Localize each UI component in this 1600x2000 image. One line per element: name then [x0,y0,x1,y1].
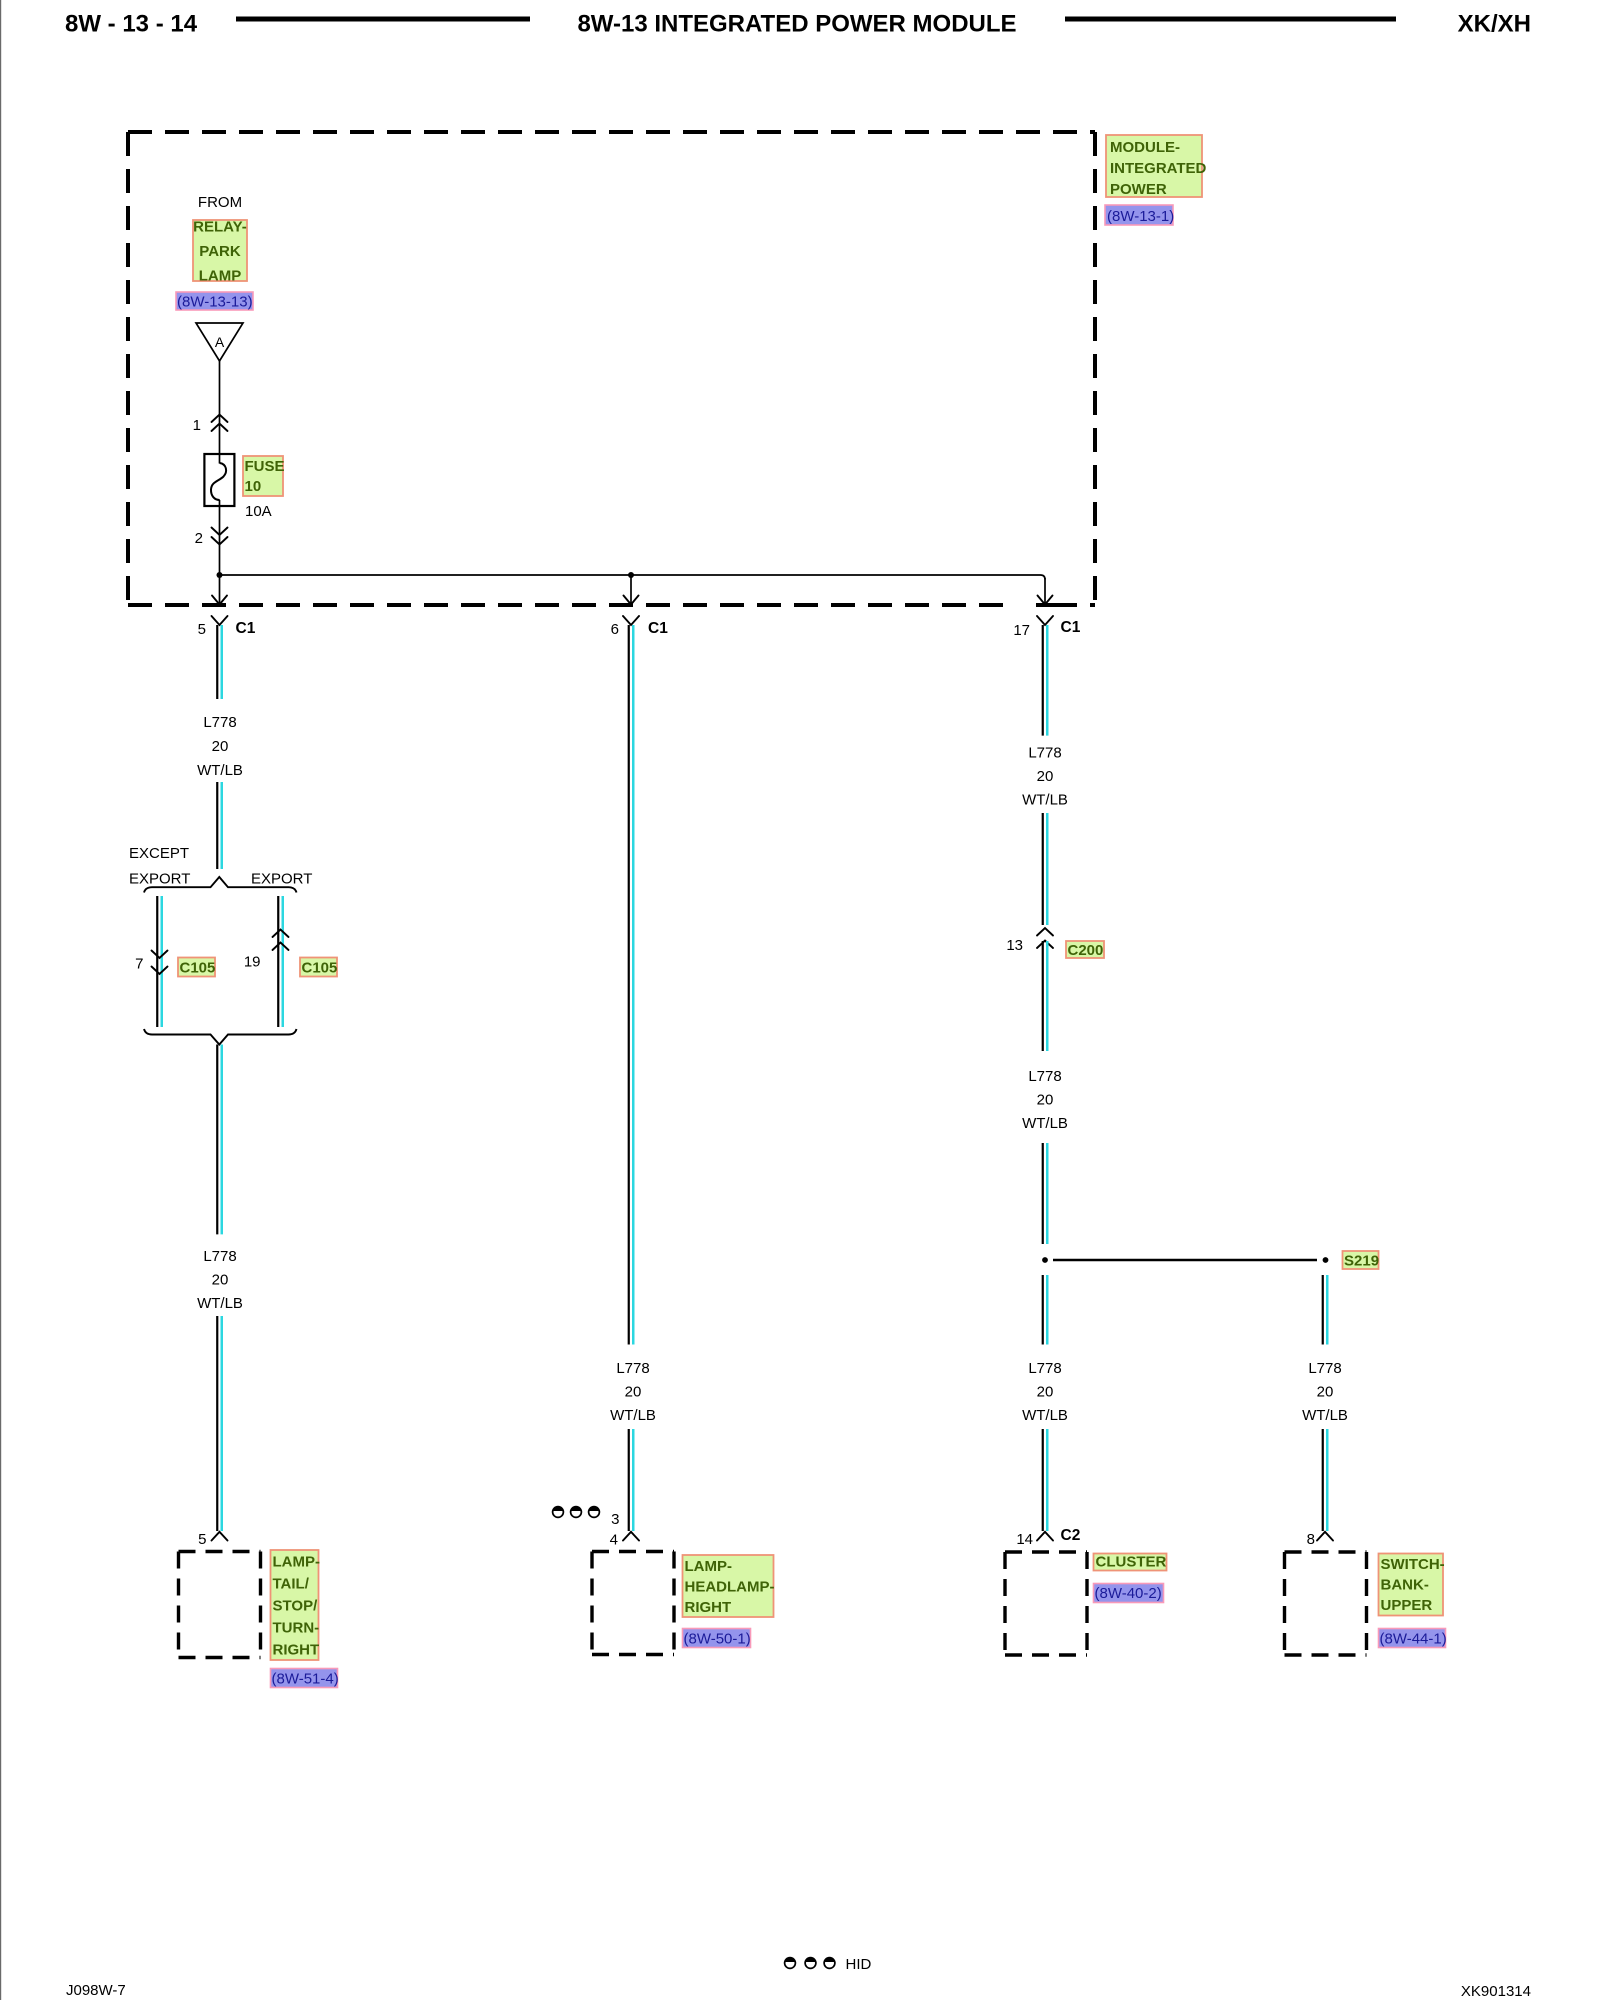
component: SWITCH-BANK-UPPER dashed box [1285,1552,1367,1655]
svg-text:14: 14 [1016,1531,1033,1548]
svg-text:RIGHT: RIGHT [273,1642,320,1659]
pin 2 connector chevrons (down) [212,528,228,545]
wire W-A6: down to lamp connector [216,1316,218,1531]
svg-text:EXCEPT: EXCEPT [129,845,189,862]
svg-text:C1: C1 [236,620,256,637]
svg-text:WT/LB: WT/LB [1022,1115,1068,1132]
connector C200 pin 13 chevrons (up) [1037,928,1053,948]
svg-text:C105: C105 [180,960,216,977]
link: (8W-44-1) [1379,1629,1447,1648]
label: C200 (green) [1066,941,1104,959]
header rule right [1065,17,1396,22]
wire: splice tie line [1053,1259,1317,1261]
svg-text:LAMP-: LAMP- [273,1554,321,1571]
connector C1 pin 6 (female half below IPM) [623,616,639,625]
dash patch at pin 17 [1014,603,1036,608]
module U1: INTEGRATED POWER MODULE dashed outline [128,132,1095,605]
svg-text:SWITCH-: SWITCH- [1381,1556,1445,1573]
label: MODULE-INTEGRATED POWER (green) [1106,135,1207,198]
label: CLUSTER (green) [1094,1554,1167,1571]
svg-text:4: 4 [610,1532,618,1549]
header rule left [236,17,530,22]
svg-text:RELAY-: RELAY- [193,219,247,236]
node: bus junction dot middle drop [628,572,634,578]
svg-text:5: 5 [198,621,206,638]
svg-text:(8W-13-1): (8W-13-1) [1107,208,1174,225]
svg-text:(8W-13-13): (8W-13-13) [177,294,253,311]
svg-text:WT/LB: WT/LB [197,1295,243,1312]
svg-text:WT/LB: WT/LB [610,1407,656,1424]
svg-text:10A: 10A [245,503,272,520]
svg-text:2: 2 [195,530,203,547]
component: LAMP-HEADLAMP-RIGHT dashed box [592,1552,674,1655]
svg-text:L778: L778 [203,1248,236,1265]
svg-text:INTEGRATED: INTEGRATED [1110,160,1207,177]
connector C105 pin 7 chevrons (down) [152,951,168,975]
svg-text:20: 20 [625,1384,642,1401]
wire W-B2: down to lamp connector [628,1429,630,1531]
component: LAMP-TAIL/STOP/TURN-RIGHT dashed box [179,1552,261,1658]
wire W-D2: down to switch bank connector [1322,1429,1324,1531]
svg-text:20: 20 [212,1272,229,1289]
wire W-A1: C1 pin5 down (WT/LB) [216,625,218,699]
svg-text:20: 20 [1037,1384,1054,1401]
svg-text:6: 6 [611,621,619,638]
svg-text:FROM: FROM [198,194,242,211]
svg-text:C1: C1 [1061,619,1081,636]
svg-text:8: 8 [1307,1531,1315,1548]
svg-text:POWER: POWER [1110,181,1167,198]
svg-text:8W - 13 - 14: 8W - 13 - 14 [65,11,198,38]
label: C105 (right) [300,958,337,977]
arrowhead at C1 pin 6 [624,596,639,605]
svg-text:WT/LB: WT/LB [1022,1407,1068,1424]
link: (8W-51-4) [271,1669,339,1688]
page edge artifact line [0,0,2,2000]
wire: triangle A to fuse (inside IPM) [219,361,221,464]
component: CLUSTER dashed box [1005,1552,1087,1655]
svg-text:L778: L778 [616,1360,649,1377]
wire W-D1: splice S219 down to switch bank (WT/LB) [1322,1275,1324,1345]
connector C105 pin 19 chevrons (up) [273,930,289,951]
svg-text:L778: L778 [1028,745,1061,762]
label: C105 (left) [178,958,215,977]
arrowhead at C1 pin 17 [1038,596,1053,605]
svg-text:C1: C1 [648,620,668,637]
node: splice S219 right dot [1323,1257,1329,1263]
svg-text:TURN-: TURN- [273,1620,320,1637]
wire W-B1: C1 pin6 down to headlamp (WT/LB) [628,625,630,1345]
svg-text:TAIL/: TAIL/ [273,1576,310,1593]
connector C2 pin 14 at cluster (chevron up) [1037,1532,1053,1541]
svg-text:PARK: PARK [199,243,241,260]
svg-text:WT/LB: WT/LB [1302,1407,1348,1424]
svg-text:LAMP: LAMP [199,268,242,285]
label: LAMP-HEADLAMP-RIGHT (green) [683,1555,775,1617]
svg-text:L778: L778 [1028,1360,1061,1377]
svg-text:XK/XH: XK/XH [1458,11,1531,38]
label: S219 (green) [1343,1251,1380,1270]
svg-text:7: 7 [135,956,143,973]
pin 1 connector chevrons (up) [212,415,228,432]
svg-text:HID: HID [846,1956,872,1973]
wire W-A5: merged wire down [216,1045,218,1235]
wire W-C5: splice down to cluster [1042,1275,1044,1345]
node A: off-page triangle connector [196,323,243,361]
split brace (top) [144,877,297,893]
svg-text:10: 10 [245,478,262,495]
svg-text:MODULE-: MODULE- [1110,139,1180,156]
svg-text:(8W-44-1): (8W-44-1) [1380,1631,1447,1648]
arrowhead at C1 pin 5 [212,596,227,605]
svg-text:EXPORT: EXPORT [251,871,312,888]
HID option marker circles [553,1507,600,1518]
link: (8W-50-1) [683,1629,751,1648]
svg-text:(8W-40-2): (8W-40-2) [1095,1585,1162,1602]
svg-text:BANK-: BANK- [1381,1577,1429,1594]
svg-text:STOP/: STOP/ [273,1598,319,1615]
svg-text:RIGHT: RIGHT [685,1599,732,1616]
wire W-C1: C1 pin17 down (WT/LB) [1042,625,1044,736]
svg-text:20: 20 [1317,1384,1334,1401]
svg-text:(8W-51-4): (8W-51-4) [272,1671,339,1688]
node: bus junction dot at fuse output [217,572,223,578]
wire: bus drop to C1 pin 17 [1044,578,1046,604]
svg-text:L778: L778 [1308,1360,1341,1377]
wire W-A2: down to export split [216,782,218,869]
svg-text:WT/LB: WT/LB [197,762,243,779]
svg-text:20: 20 [1037,1092,1054,1109]
svg-text:1: 1 [193,417,201,434]
svg-text:C2: C2 [1061,1527,1081,1544]
svg-text:A: A [215,334,225,350]
svg-text:UPPER: UPPER [1381,1597,1433,1614]
label: FUSE 10 (green) [243,456,285,496]
svg-text:J098W-7: J098W-7 [66,1982,126,1999]
svg-text:L778: L778 [203,714,236,731]
connector pin 5 at lamp (chevron up) [212,1532,228,1541]
connector pin 8 at switch bank (chevron up) [1317,1532,1333,1541]
wire W-C4: down to splice S219 [1042,1143,1044,1244]
svg-text:19: 19 [244,954,261,971]
svg-text:20: 20 [212,738,229,755]
svg-text:LAMP-: LAMP- [685,1558,733,1575]
fuse F10 body [204,454,234,506]
connector pin 4 at headlamp (chevron up) [623,1532,639,1541]
wire W-A3: except-export branch (left) [156,896,158,1027]
link: (8W-40-2) [1094,1584,1164,1603]
merge brace (bottom) [144,1029,297,1045]
label: SWITCH-BANK-UPPER (green) [1379,1554,1445,1616]
svg-text:CLUSTER: CLUSTER [1096,1554,1167,1571]
wire W-A4: export branch (right) [277,896,279,1027]
wire: fuse to bus node [219,500,221,604]
connector C1 pin 5 (female half below IPM) [212,616,228,625]
svg-text:13: 13 [1006,937,1023,954]
svg-text:8W-13 INTEGRATED POWER MODULE: 8W-13 INTEGRATED POWER MODULE [577,11,1016,38]
wire W-C2: down to C200 [1042,813,1044,925]
connector C1 pin 17 (female half below IPM) [1037,616,1053,625]
wire W-C6: down to cluster connector [1042,1429,1044,1531]
svg-text:XK901314: XK901314 [1461,1983,1531,2000]
svg-text:S219: S219 [1344,1253,1379,1270]
svg-text:L778: L778 [1028,1068,1061,1085]
svg-text:C105: C105 [302,960,338,977]
node: splice S219 left dot [1042,1257,1048,1263]
svg-text:(8W-50-1): (8W-50-1) [684,1631,751,1648]
legend: HID marker [785,1956,872,1973]
wire W-C3: C200 down [1042,941,1044,1051]
svg-text:5: 5 [198,1531,206,1548]
link: (8W-13-1) [1105,205,1174,225]
link: (8W-13-13) [176,292,253,311]
svg-text:3: 3 [611,1511,619,1528]
label: LAMP-TAIL/STOP/TURN-RIGHT (green) [271,1550,321,1660]
svg-text:C200: C200 [1068,942,1104,959]
svg-text:FUSE: FUSE [245,458,285,475]
svg-text:20: 20 [1037,768,1054,785]
wire: bus drop to C1 pin 6 [630,575,632,604]
wire: internal bus across IPM [220,575,1046,580]
svg-text:EXPORT: EXPORT [129,871,190,888]
svg-text:WT/LB: WT/LB [1022,792,1068,809]
svg-text:17: 17 [1013,622,1030,639]
svg-text:HEADLAMP-: HEADLAMP- [685,1579,775,1596]
